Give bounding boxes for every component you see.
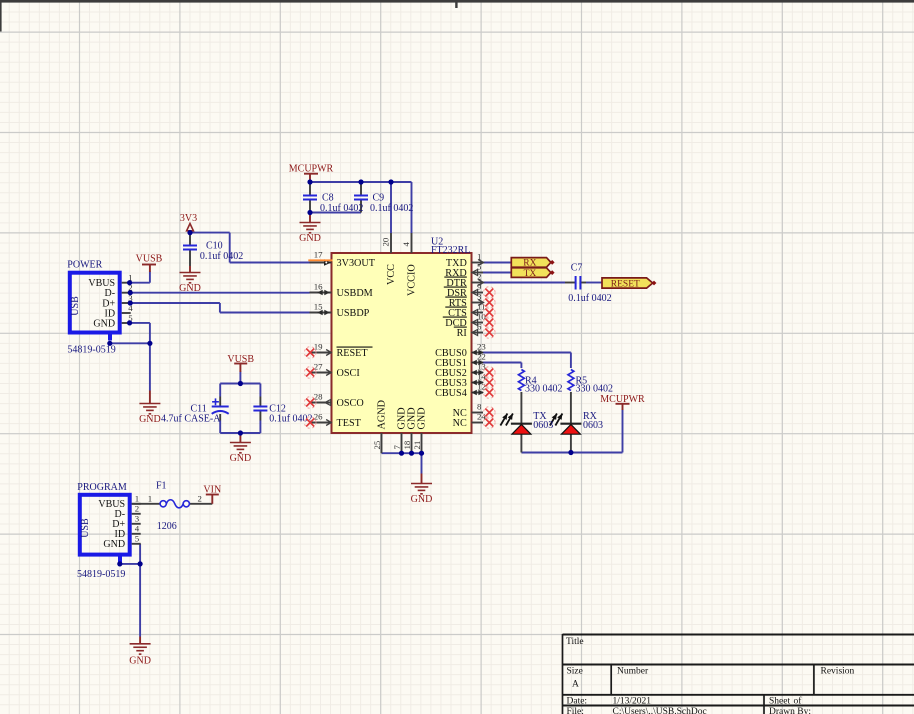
svg-text:0603: 0603 [533,420,553,431]
svg-text:0.1uf 0402: 0.1uf 0402 [200,251,243,262]
svg-text:OSCI: OSCI [337,368,361,379]
svg-text:3V3: 3V3 [180,213,197,224]
svg-text:0603: 0603 [583,420,603,431]
svg-text:GND: GND [139,414,161,425]
svg-text:C:\Users\..\USB.SchDoc: C:\Users\..\USB.SchDoc [613,707,707,714]
svg-text:7: 7 [392,445,402,450]
svg-text:VUSB: VUSB [136,254,163,265]
svg-text:4.7uf CASE-A: 4.7uf CASE-A [161,414,221,425]
svg-text:PROGRAM: PROGRAM [77,482,127,493]
svg-text:USBDP: USBDP [337,308,370,319]
svg-text:Title: Title [566,637,584,647]
svg-text:0.1uf 0402: 0.1uf 0402 [568,293,611,304]
svg-text:File:: File: [567,707,584,714]
svg-text:4: 4 [401,242,411,247]
svg-text:RESET: RESET [337,348,369,359]
svg-text:17: 17 [314,250,323,260]
svg-text:GND: GND [93,318,115,329]
svg-text:Revision: Revision [821,667,855,677]
svg-text:GND: GND [179,283,201,294]
svg-text:C9: C9 [373,193,385,204]
svg-text:of: of [794,696,803,707]
svg-text:5: 5 [135,534,140,544]
svg-text:27: 27 [314,362,323,372]
svg-text:8: 8 [477,402,482,412]
svg-text:F1: F1 [156,481,167,492]
svg-text:FT232RL: FT232RL [431,245,470,256]
svg-text:19: 19 [314,342,323,352]
svg-text:GND: GND [129,655,151,666]
svg-text:A: A [572,680,579,690]
svg-text:2: 2 [135,504,139,514]
svg-text:2: 2 [197,493,201,503]
svg-text:15: 15 [314,302,323,312]
svg-text:10: 10 [477,312,486,322]
svg-text:4: 4 [135,524,140,534]
svg-text:28: 28 [314,392,323,402]
svg-text:POWER: POWER [67,260,102,271]
svg-text:20: 20 [381,237,391,246]
svg-text:AGND: AGND [377,400,388,429]
svg-text:1: 1 [148,493,152,503]
svg-text:C7: C7 [571,263,583,274]
svg-text:54819-0519: 54819-0519 [77,569,125,580]
svg-text:1: 1 [135,494,139,504]
svg-text:USB: USB [70,296,81,316]
svg-text:Date:: Date: [567,697,588,707]
svg-text:TX: TX [524,269,537,279]
svg-text:TEST: TEST [337,418,362,429]
svg-text:RESET: RESET [611,279,640,289]
svg-text:C8: C8 [322,193,334,204]
svg-text:Sheet: Sheet [769,697,790,707]
svg-text:0.1uf 0402: 0.1uf 0402 [320,203,363,214]
svg-text:18: 18 [402,440,412,449]
svg-text:21: 21 [412,441,422,450]
svg-text:3V3OUT: 3V3OUT [337,258,376,269]
svg-text:USB: USB [80,518,91,538]
svg-text:NC: NC [453,418,467,429]
svg-text:26: 26 [314,412,323,422]
svg-text:54819-0519: 54819-0519 [67,345,115,356]
svg-text:1206: 1206 [157,521,177,532]
svg-text:OSCO: OSCO [337,398,364,409]
svg-text:VCCIO: VCCIO [407,264,418,296]
svg-text:24: 24 [477,412,486,422]
svg-text:GND: GND [103,539,125,550]
svg-text:3: 3 [135,514,140,524]
svg-text:Number: Number [617,667,649,677]
svg-text:16: 16 [314,282,323,292]
svg-text:GND: GND [230,453,252,464]
svg-text:GND: GND [417,407,428,429]
svg-text:0.1uf 0402: 0.1uf 0402 [370,203,413,214]
svg-text:RI: RI [457,328,468,339]
svg-text:VCC: VCC [386,264,397,285]
svg-text:1/13/2021: 1/13/2021 [613,697,652,707]
svg-text:GND: GND [411,494,433,505]
svg-text:25: 25 [372,440,382,449]
svg-text:GND: GND [299,233,321,244]
svg-text:USBDM: USBDM [337,288,373,299]
svg-text:330 0402: 330 0402 [525,384,563,395]
svg-text:Drawn By:: Drawn By: [769,707,811,714]
svg-text:CBUS4: CBUS4 [435,388,467,399]
svg-text:Size: Size [567,667,583,677]
